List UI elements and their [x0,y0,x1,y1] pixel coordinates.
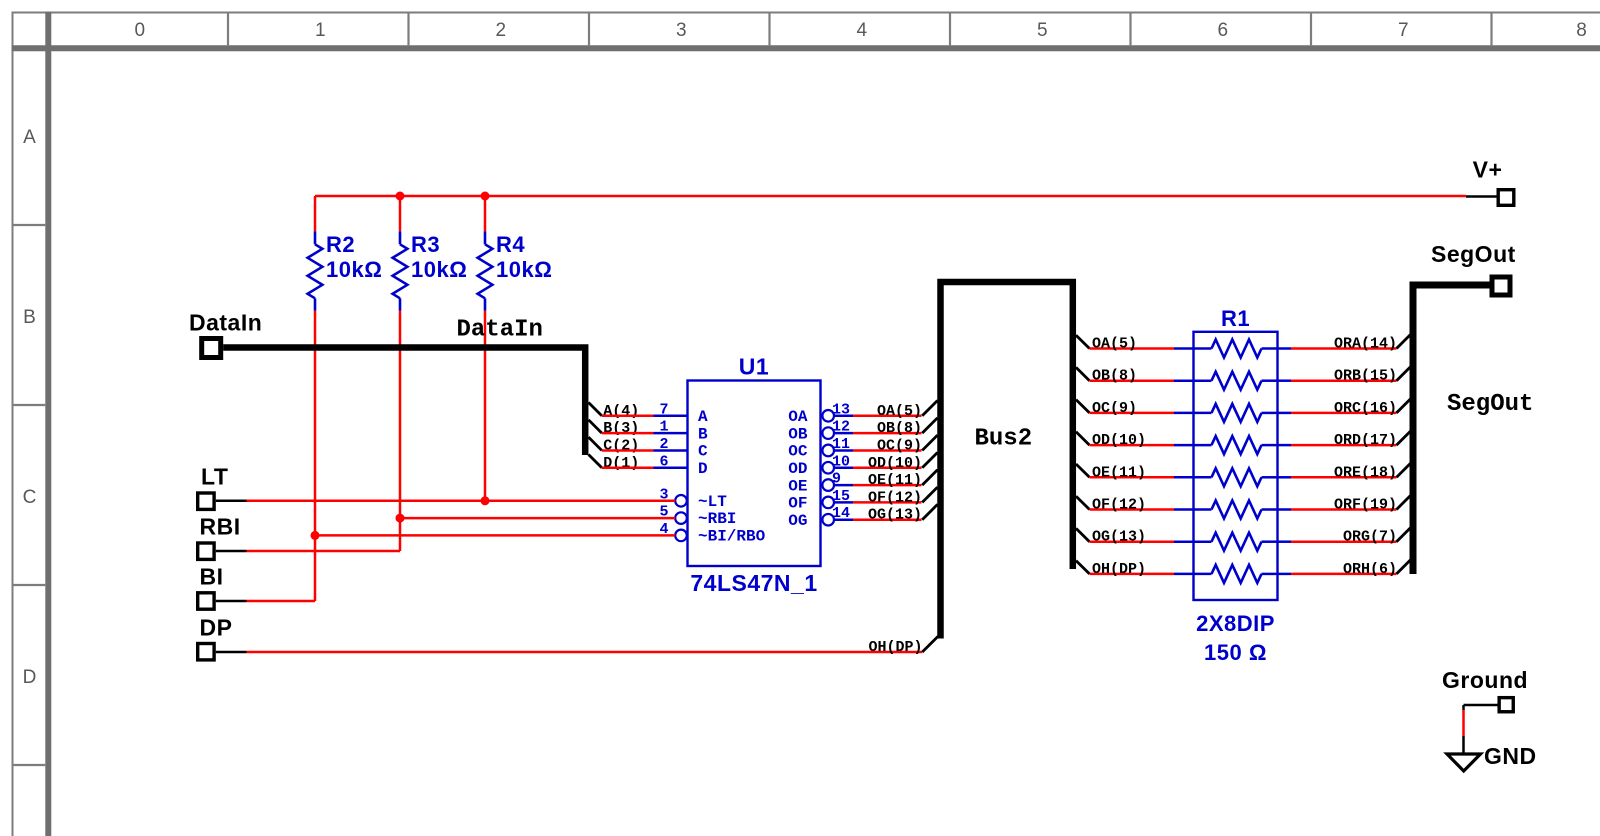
svg-text:2: 2 [495,20,506,41]
svg-text:B(3): B(3) [603,420,639,437]
svg-text:OG(13): OG(13) [868,507,922,524]
svg-text:OC(9): OC(9) [877,437,922,454]
svg-text:D(1): D(1) [603,455,639,472]
svg-text:ORH(6): ORH(6) [1343,561,1397,578]
svg-text:OF: OF [788,495,807,513]
svg-text:R1: R1 [1221,306,1250,331]
svg-text:12: 12 [832,419,850,436]
svg-text:15: 15 [832,488,850,505]
svg-text:R4: R4 [496,232,525,257]
svg-text:OH(DP): OH(DP) [868,639,922,656]
svg-text:2X8DIP: 2X8DIP [1196,611,1275,636]
svg-text:OB(8): OB(8) [1092,368,1137,385]
svg-text:OA: OA [788,408,808,426]
svg-text:R2: R2 [326,232,355,257]
svg-text:V+: V+ [1473,157,1503,183]
svg-text:7: 7 [659,401,668,418]
svg-text:2: 2 [659,436,668,453]
svg-text:ORA(14): ORA(14) [1334,336,1397,353]
svg-text:1: 1 [315,20,326,41]
svg-text:OD(10): OD(10) [868,455,922,472]
svg-text:DataIn: DataIn [189,310,262,336]
svg-text:OA(5): OA(5) [877,403,922,420]
svg-text:DataIn: DataIn [457,317,543,344]
svg-text:RBI: RBI [200,514,241,540]
svg-text:OE(11): OE(11) [1092,464,1146,481]
svg-text:6: 6 [1217,20,1228,41]
svg-text:C: C [23,487,37,508]
svg-text:OB: OB [788,425,808,443]
svg-text:OC: OC [788,443,808,461]
svg-text:OG: OG [788,512,807,530]
svg-text:BI: BI [200,564,224,590]
svg-text:1: 1 [659,419,668,436]
svg-text:OE(11): OE(11) [868,472,922,489]
svg-text:~RBI: ~RBI [698,510,736,528]
svg-text:D: D [698,460,708,478]
svg-text:A: A [698,408,708,426]
svg-text:ORB(15): ORB(15) [1334,368,1397,385]
svg-text:OF(12): OF(12) [868,489,922,506]
svg-text:11: 11 [832,436,850,453]
svg-text:74LS47N_1: 74LS47N_1 [690,570,817,596]
svg-text:ORD(17): ORD(17) [1334,432,1397,449]
svg-text:OH(DP): OH(DP) [1092,561,1146,578]
svg-text:GND: GND [1484,743,1537,769]
svg-text:ORE(18): ORE(18) [1334,464,1397,481]
svg-text:C: C [698,443,708,461]
svg-text:OG(13): OG(13) [1092,529,1146,546]
svg-text:OD: OD [788,460,807,478]
svg-text:150 Ω: 150 Ω [1204,640,1267,665]
svg-text:0: 0 [134,20,145,41]
svg-text:Ground: Ground [1442,667,1528,693]
svg-text:13: 13 [832,401,850,418]
svg-text:4: 4 [856,20,867,41]
svg-text:B: B [698,425,708,443]
svg-text:R3: R3 [411,232,440,257]
svg-text:OC(9): OC(9) [1092,400,1137,417]
svg-text:D: D [23,667,37,688]
svg-text:OA(5): OA(5) [1092,336,1137,353]
svg-text:7: 7 [1398,20,1409,41]
svg-text:OB(8): OB(8) [877,420,922,437]
svg-text:A: A [23,127,36,148]
svg-text:OE: OE [788,477,807,495]
svg-text:10: 10 [832,453,850,470]
svg-text:~BI/RBO: ~BI/RBO [698,527,766,545]
svg-text:5: 5 [1037,20,1048,41]
svg-text:3: 3 [676,20,687,41]
svg-text:A(4): A(4) [603,403,639,420]
svg-text:ORG(7): ORG(7) [1343,529,1397,546]
svg-text:14: 14 [832,505,850,522]
svg-text:LT: LT [201,464,228,490]
svg-text:~LT: ~LT [698,493,727,511]
svg-text:10kΩ: 10kΩ [411,257,467,282]
svg-text:DP: DP [200,615,233,641]
svg-text:C(2): C(2) [603,437,639,454]
svg-text:OF(12): OF(12) [1092,497,1146,514]
svg-text:Bus2: Bus2 [975,426,1033,453]
svg-text:6: 6 [659,453,668,470]
svg-text:OD(10): OD(10) [1092,432,1146,449]
svg-text:10kΩ: 10kΩ [326,257,382,282]
svg-text:ORC(16): ORC(16) [1334,400,1397,417]
svg-text:SegOut: SegOut [1447,391,1533,418]
svg-text:B: B [23,307,36,328]
svg-text:9: 9 [832,471,841,488]
svg-text:SegOut: SegOut [1431,241,1516,267]
svg-text:ORF(19): ORF(19) [1334,497,1397,514]
svg-text:8: 8 [1576,20,1587,41]
svg-text:U1: U1 [739,354,769,380]
svg-text:10kΩ: 10kΩ [496,257,552,282]
